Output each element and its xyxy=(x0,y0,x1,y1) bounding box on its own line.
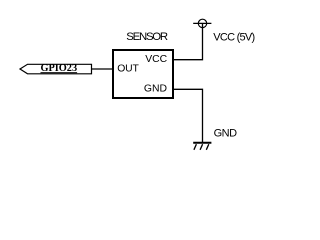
wire GPIO23 to OUT pin xyxy=(92,68,114,70)
svg-text:SENSOR: SENSOR xyxy=(126,31,168,43)
svg-text:VCC: VCC xyxy=(145,54,167,65)
svg-text:GPIO23: GPIO23 xyxy=(40,63,77,74)
power symbol VCC xyxy=(193,19,211,27)
wire VCC pin to vcc rail xyxy=(173,24,203,60)
svg-text:OUT: OUT xyxy=(117,64,139,75)
wire GND pin to ground xyxy=(173,89,203,142)
svg-text:GND: GND xyxy=(144,84,167,95)
svg-text:VCC (5V): VCC (5V) xyxy=(213,31,254,43)
ground symbol xyxy=(193,143,211,150)
svg-text:GND: GND xyxy=(214,128,238,140)
op sensor box U1 xyxy=(113,31,173,98)
net label GPIO23 (flag) xyxy=(20,63,92,74)
